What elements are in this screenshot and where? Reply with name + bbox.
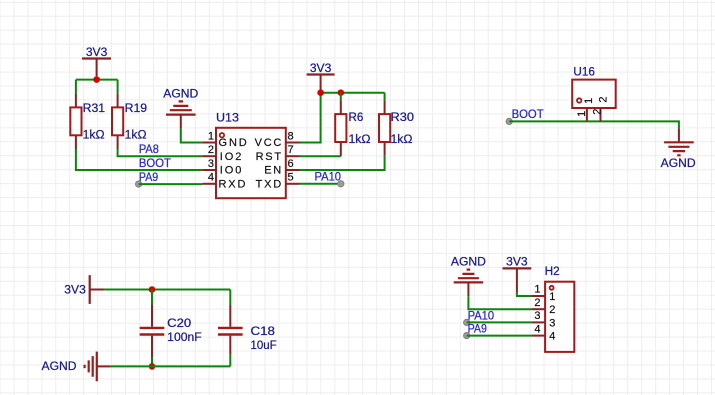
svg-text:BOOT: BOOT [139,158,171,170]
svg-text:R6: R6 [349,112,364,124]
wire EN [300,156,385,170]
svg-text:RST: RST [256,151,282,163]
op-amp U13 [216,113,286,199]
pin 1 of H2 [531,283,555,303]
svg-text:4: 4 [549,331,555,343]
svg-text:1: 1 [208,130,214,142]
wire AGND to H2 pin2 [468,296,531,309]
capacitor C20 [140,290,202,367]
svg-text:H2: H2 [545,266,560,278]
junction [149,363,156,370]
svg-text:AGND: AGND [42,361,77,373]
svg-text:EN: EN [264,165,281,177]
pin 7 RST [256,144,300,163]
svg-text:VCC: VCC [255,137,282,149]
junction [338,89,345,96]
svg-text:AGND: AGND [661,158,696,170]
svg-text:R30: R30 [391,112,415,124]
svg-text:3V3: 3V3 [86,47,108,59]
wire BOOT [76,149,202,170]
svg-text:RXD: RXD [219,178,246,190]
pin 3 of H2 [531,310,555,329]
svg-text:AGND: AGND [163,88,198,100]
svg-text:100nF: 100nF [167,332,202,344]
resistor R6 [335,93,371,157]
svg-text:1kΩ: 1kΩ [125,129,147,141]
power 3V3 #2 [307,63,335,90]
pin 1 GND [202,130,247,149]
pin 3 IO0 [202,158,241,177]
svg-text:8: 8 [288,130,294,142]
ground AGND #2 [661,129,696,170]
wire RST [300,155,341,157]
pin 4 RXD [202,172,245,191]
svg-text:PA9: PA9 [139,172,158,184]
svg-text:3V3: 3V3 [64,284,86,296]
pin 8 VCC [255,130,300,149]
svg-text:3: 3 [208,158,214,170]
svg-text:C20: C20 [167,318,191,330]
svg-text:4: 4 [534,323,540,335]
junction [93,76,100,83]
svg-text:3V3: 3V3 [506,256,528,268]
net port PA10 [338,181,344,187]
ground AGND #3 [42,352,111,382]
svg-text:1kΩ: 1kΩ [391,134,413,146]
svg-text:6: 6 [288,158,294,170]
svg-text:2: 2 [591,109,603,115]
svg-text:7: 7 [288,144,294,156]
svg-text:2: 2 [534,297,540,309]
pin 2 of U16 [591,96,609,121]
power 3V3 #1 [82,47,111,76]
ground AGND #1 [163,88,198,128]
wire 3V3 to H2 pin1 [517,292,532,296]
resistor R30 [379,93,414,156]
junction [317,89,324,96]
svg-text:TXD: TXD [256,178,282,190]
wire TXD PA10 [300,183,341,185]
svg-text:2: 2 [549,304,555,316]
header H2 [545,266,575,352]
junction [149,286,156,293]
pin 2 IO2 [202,144,241,163]
svg-text:R31: R31 [83,103,106,115]
resistor R31 [70,94,105,149]
wire 3V3 to caps [104,289,231,291]
svg-text:1: 1 [534,283,540,295]
pin 4 of H2 [531,323,555,342]
svg-text:3: 3 [549,317,555,329]
svg-text:1: 1 [576,111,588,117]
svg-text:U16: U16 [573,66,595,78]
pin 1 of U16 [576,98,595,122]
ground AGND #4 [451,256,486,296]
power 3V3 #4 [503,256,532,292]
svg-text:AGND: AGND [451,256,486,268]
wire PA9 to H2 pin4 [467,335,532,337]
svg-text:U13: U13 [216,113,239,125]
svg-text:1kΩ: 1kΩ [83,129,105,141]
jumper U16 [572,66,616,108]
resistor R19 [112,94,147,149]
svg-text:PA9: PA9 [468,324,487,336]
svg-text:2: 2 [208,144,214,156]
svg-text:3V3: 3V3 [310,63,332,75]
svg-text:PA8: PA8 [139,144,159,156]
net port BOOT right [506,118,512,124]
pin 2 of H2 [531,297,555,316]
wire BOOT to AGND [509,121,679,128]
pin 5 TXD [256,172,300,191]
wire 3V3 bus [300,90,385,143]
svg-text:2: 2 [598,96,610,102]
svg-text:BOOT: BOOT [512,109,544,121]
wire PA8 [118,149,203,156]
wire PA10 to H2 pin3 [467,321,532,323]
wire AGND bottom [111,365,231,367]
wire AGND to pin1 [181,128,203,142]
wire 3V3 top-left [76,76,118,93]
svg-text:PA10: PA10 [468,311,495,323]
svg-text:3: 3 [534,310,540,322]
net port PA9 bottom [464,333,470,339]
pin 6 EN [264,158,299,177]
net port PA9 [136,181,142,187]
svg-text:PA10: PA10 [315,171,342,183]
net port PA10 bottom [464,319,470,325]
svg-text:R19: R19 [125,103,147,115]
capacitor C18 [218,290,277,367]
svg-text:1kΩ: 1kΩ [349,134,371,146]
svg-text:4: 4 [208,172,214,184]
power 3V3 #3 [64,275,103,304]
svg-text:GND: GND [219,137,247,149]
svg-text:5: 5 [288,172,294,184]
svg-text:C18: C18 [251,326,276,338]
svg-text:1: 1 [549,291,555,303]
wire PA9 [139,183,203,185]
svg-text:10uF: 10uF [251,340,277,352]
svg-text:1: 1 [583,98,595,104]
